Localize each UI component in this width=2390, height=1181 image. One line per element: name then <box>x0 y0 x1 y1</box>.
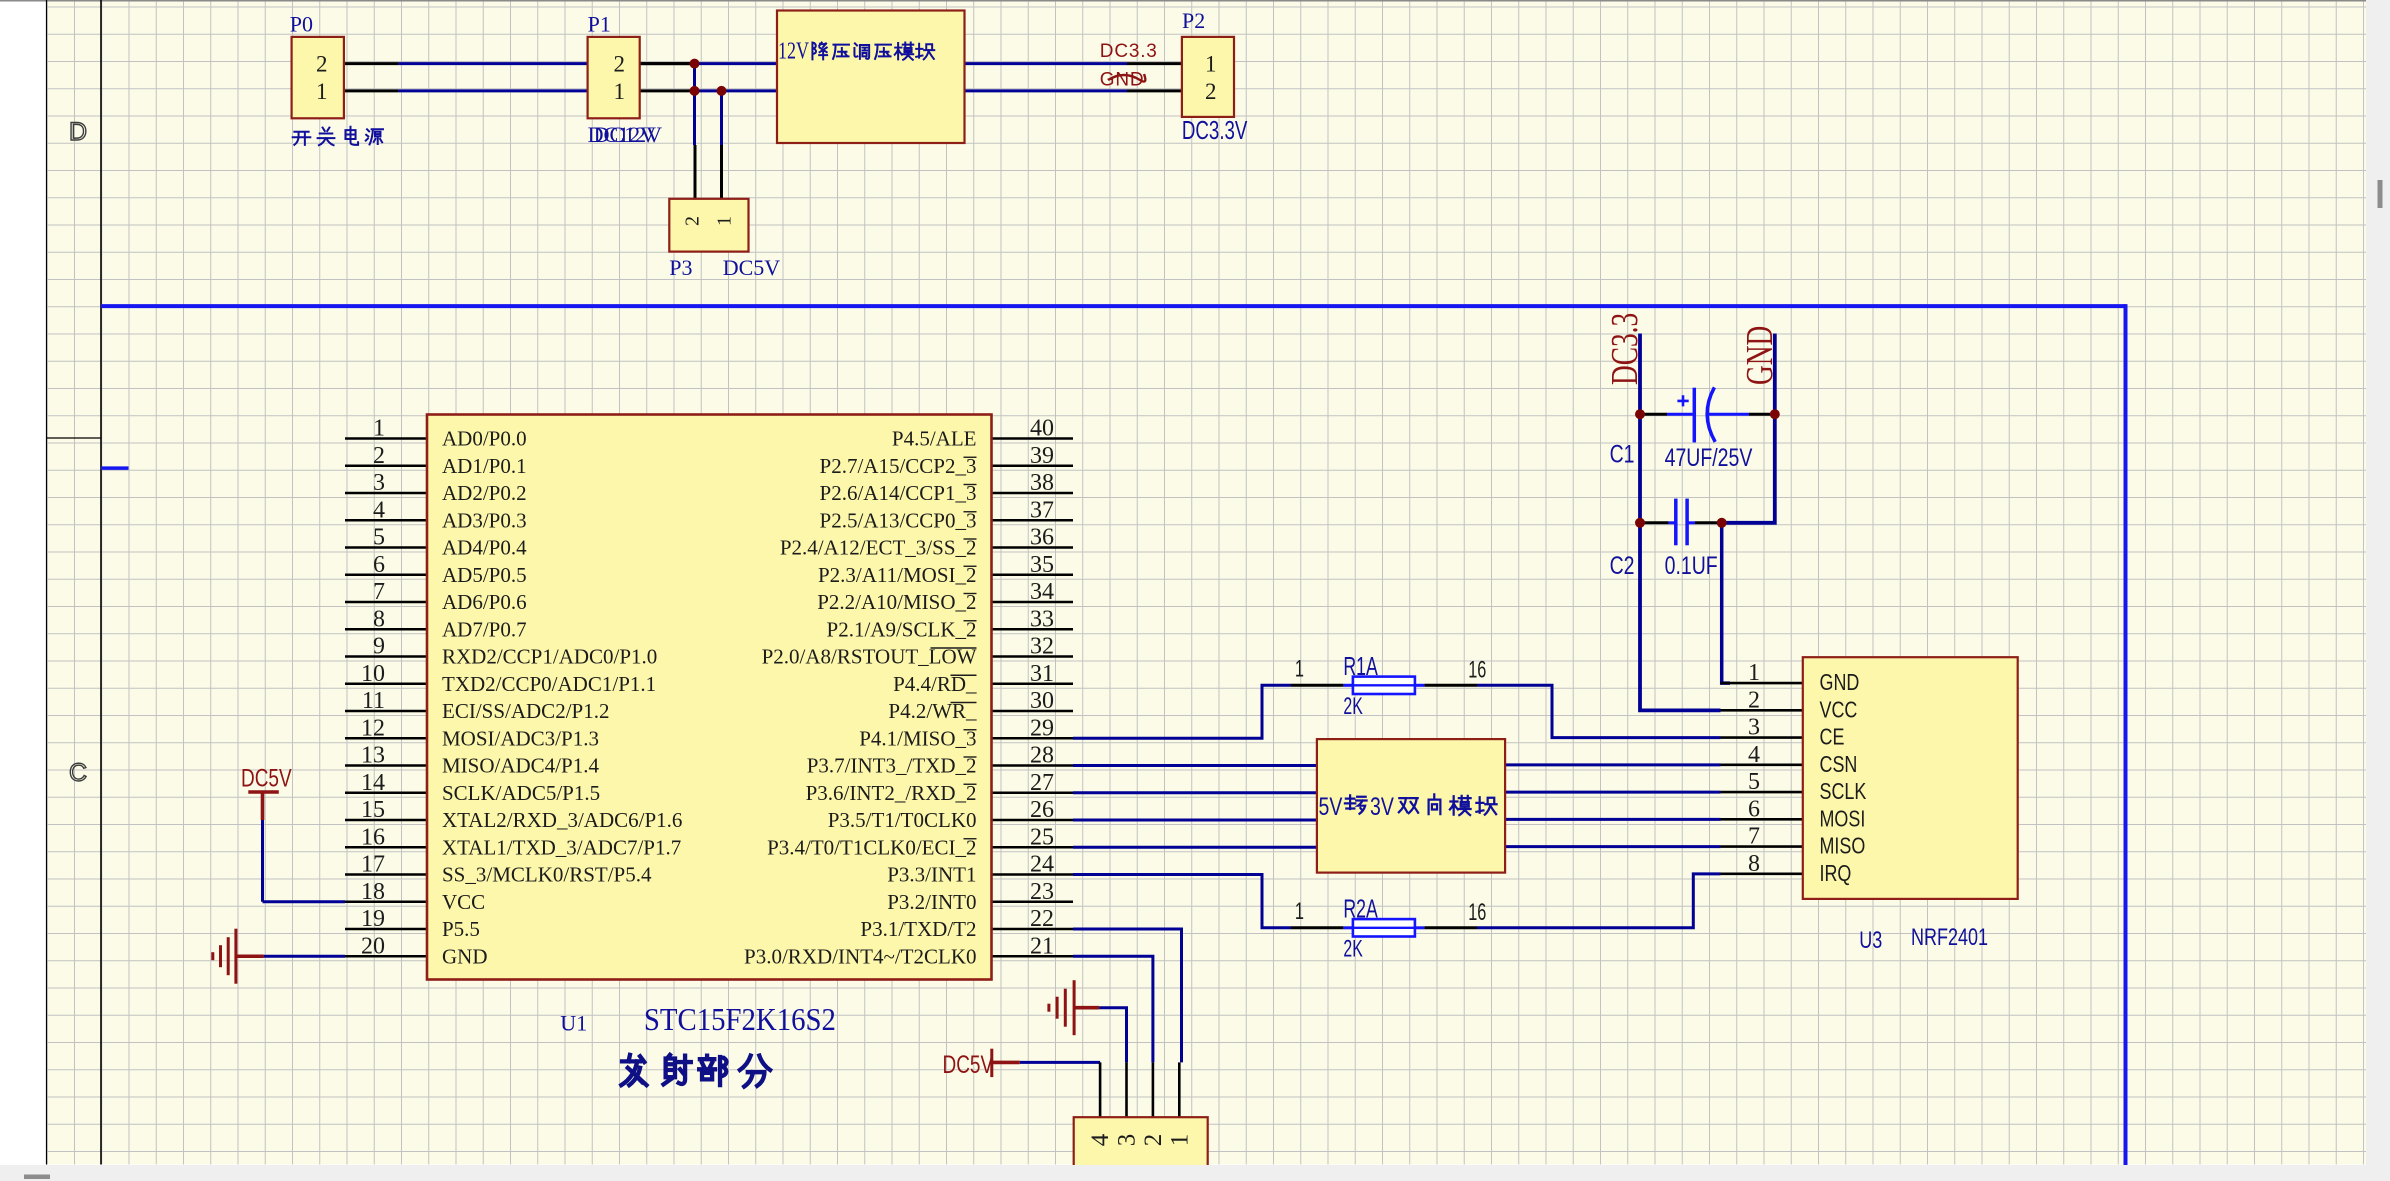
pin U1.29 stub <box>992 737 1074 740</box>
power DC5V symbol bottom <box>992 1049 1020 1077</box>
wire C2 node down to NRF2401 GND pin <box>1722 523 1730 683</box>
svg-text:DC3.3: DC3.3 <box>1604 313 1646 385</box>
pin U3.4 stub <box>1721 764 1803 767</box>
svg-text:TXD2/CCP0/ADC1/P1.1: TXD2/CCP0/ADC1/P1.1 <box>442 672 656 696</box>
pin R1A.1 lead <box>1291 684 1343 687</box>
svg-text:40: 40 <box>1030 416 1054 442</box>
svg-text:13: 13 <box>361 743 385 769</box>
12V buck module body <box>777 11 965 144</box>
pin U1.37 stub <box>992 519 1074 522</box>
svg-text:STC15F2K16S2: STC15F2K16S2 <box>644 1002 836 1038</box>
pin U1.13 stub <box>345 764 427 767</box>
svg-text:U1: U1 <box>560 1011 587 1036</box>
svg-text:MOSI/ADC3/P1.3: MOSI/ADC3/P1.3 <box>442 726 599 750</box>
svg-text:9: 9 <box>373 634 385 660</box>
svg-text:P3.1/TXD/T2: P3.1/TXD/T2 <box>860 917 976 941</box>
svg-text:SCLK: SCLK <box>1820 779 1867 805</box>
wire P0.1 to P1.1 <box>398 89 587 92</box>
svg-text:ECI/SS/ADC2/P1.2: ECI/SS/ADC2/P1.2 <box>442 699 609 723</box>
wire DC5V to U1 VCC vertical <box>261 819 264 902</box>
svg-text:3V: 3V <box>1370 793 1394 821</box>
svg-text:D: D <box>69 118 87 146</box>
pin bottom header 1 stub <box>1178 1062 1181 1117</box>
svg-text:23: 23 <box>1030 879 1054 905</box>
svg-text:15: 15 <box>361 797 385 823</box>
svg-text:VCC: VCC <box>442 890 485 914</box>
svg-text:CE: CE <box>1820 725 1845 751</box>
svg-text:AD1/P0.1: AD1/P0.1 <box>442 454 527 478</box>
svg-text:47UF/25V: 47UF/25V <box>1665 444 1753 472</box>
IC U3 NRF2401 body <box>1803 657 2018 899</box>
svg-text:26: 26 <box>1030 797 1054 823</box>
wire 12V module out to P2.2 (GND) <box>965 89 1128 92</box>
capacitor C2 0.1UF <box>1669 499 1695 546</box>
ground symbol bottom <box>1049 980 1099 1035</box>
pin U1.26 stub <box>992 819 1074 822</box>
svg-text:2: 2 <box>373 443 385 469</box>
connector P3 body <box>669 199 748 252</box>
pin bottom header 3 stub <box>1125 1062 1128 1117</box>
svg-text:MISO/ADC4/P1.4: MISO/ADC4/P1.4 <box>442 754 599 778</box>
svg-text:34: 34 <box>1030 579 1054 605</box>
svg-text:P4.1/MISO_3: P4.1/MISO_3 <box>859 726 976 750</box>
svg-text:CSN: CSN <box>1820 752 1858 778</box>
svg-text:28: 28 <box>1030 743 1054 769</box>
svg-text:2: 2 <box>682 216 704 226</box>
resistor R2A body <box>1343 919 1424 936</box>
capacitor C1 polarized 47UF/25V <box>1667 387 1749 442</box>
zone row divider <box>47 437 102 439</box>
pin U3.1 stub <box>1721 682 1803 685</box>
svg-text:P3.6/INT2_/RXD_2: P3.6/INT2_/RXD_2 <box>806 781 977 805</box>
svg-text:8: 8 <box>1748 851 1760 877</box>
svg-text:SCLK/ADC5/P1.5: SCLK/ADC5/P1.5 <box>442 781 600 805</box>
lead C1 left <box>1640 413 1667 416</box>
svg-text:1: 1 <box>714 216 736 226</box>
pin U1.21 stub <box>992 955 1074 958</box>
svg-text:22: 22 <box>1030 906 1054 932</box>
wire U1 pin28 to level module <box>1073 764 1317 767</box>
svg-text:SS_3/MCLK0/RST/P5.4: SS_3/MCLK0/RST/P5.4 <box>442 863 652 887</box>
svg-text:R1A: R1A <box>1343 652 1378 681</box>
svg-text:35: 35 <box>1030 552 1054 578</box>
svg-text:DC5V: DC5V <box>943 1050 994 1078</box>
svg-text:7: 7 <box>1748 824 1760 850</box>
svg-text:1: 1 <box>1748 660 1760 686</box>
svg-text:XTAL2/RXD_3/ADC6/P1.6: XTAL2/RXD_3/ADC6/P1.6 <box>442 808 682 832</box>
svg-text:P0: P0 <box>290 12 313 37</box>
bus wire stub left <box>101 466 129 470</box>
svg-text:31: 31 <box>1030 661 1054 687</box>
svg-text:U3: U3 <box>1859 928 1882 954</box>
svg-text:2: 2 <box>1140 1134 1167 1147</box>
bottom header connector body <box>1074 1117 1208 1169</box>
pin U1.32 stub <box>992 655 1074 658</box>
svg-text:P2.1/A9/SCLK_2: P2.1/A9/SCLK_2 <box>827 617 977 641</box>
svg-text:AD7/P0.7: AD7/P0.7 <box>442 617 527 641</box>
pin U3.8 stub <box>1721 873 1803 876</box>
wire junction down to P3 pin2 <box>693 62 696 145</box>
pin U1.20 stub <box>345 955 427 958</box>
pin U1.4 stub <box>345 519 427 522</box>
svg-text:24: 24 <box>1030 852 1054 878</box>
pin U1.12 stub <box>345 737 427 740</box>
wire junction down to P3 pin1 <box>720 90 723 146</box>
svg-text:18: 18 <box>361 879 385 905</box>
svg-text:39: 39 <box>1030 443 1054 469</box>
svg-text:25: 25 <box>1030 824 1054 850</box>
wire U1 pin25 to level module <box>1073 846 1317 849</box>
junction node (694.5,63.6) <box>690 59 700 69</box>
junction node (1640,414.2) <box>1635 409 1645 419</box>
svg-text:P3.3/INT1: P3.3/INT1 <box>887 863 976 887</box>
power DC5V symbol left <box>248 792 278 820</box>
svg-text:4: 4 <box>1748 742 1760 768</box>
window top border <box>0 0 2390 2</box>
svg-text:GND: GND <box>1820 670 1860 696</box>
svg-text:30: 30 <box>1030 688 1054 714</box>
svg-text:P3.5/T1/T0CLK0: P3.5/T1/T0CLK0 <box>828 808 977 832</box>
svg-text:8: 8 <box>373 606 385 632</box>
svg-text:AD4/P0.4: AD4/P0.4 <box>442 536 527 560</box>
svg-text:AD0/P0.0: AD0/P0.0 <box>442 427 527 451</box>
ground symbol left <box>213 929 264 984</box>
pin U1.17 stub <box>345 873 427 876</box>
wire R1A to NRF2401 CE <box>1477 685 1721 737</box>
pin U1.25 stub <box>992 846 1074 849</box>
wire DC5V to U1 pin18 VCC <box>263 900 346 903</box>
pin U1.27 stub <box>992 791 1074 794</box>
wire R2A to NRF2401 IRQ <box>1477 874 1721 928</box>
svg-text:C1: C1 <box>1610 440 1635 468</box>
svg-text:0.1UF: 0.1UF <box>1665 552 1718 580</box>
right scrollbar thumb <box>2378 180 2383 208</box>
svg-text:MOSI: MOSI <box>1820 806 1866 832</box>
5V-3V level module body <box>1317 739 1505 873</box>
pin P0.1 stub <box>344 89 399 92</box>
svg-text:1: 1 <box>1166 1134 1193 1147</box>
pin P1.1 stub <box>640 89 695 92</box>
svg-text:19: 19 <box>361 906 385 932</box>
junction node (1774.8,414.2) <box>1770 409 1780 419</box>
svg-text:4: 4 <box>373 497 385 523</box>
svg-text:2K: 2K <box>1343 936 1363 962</box>
svg-text:RXD2/CCP1/ADC0/P1.0: RXD2/CCP1/ADC0/P1.0 <box>442 645 657 669</box>
svg-text:2K: 2K <box>1343 694 1363 720</box>
pin P0.2 stub <box>344 62 399 65</box>
svg-text:2: 2 <box>614 52 626 77</box>
wire P1 junction to 12V module in+ <box>695 62 778 65</box>
sheet zone column divider <box>100 0 102 1165</box>
svg-text:5V: 5V <box>1319 793 1343 821</box>
junction node (694.5,90.9) <box>690 86 700 96</box>
connector P2 body <box>1182 37 1234 117</box>
svg-text:38: 38 <box>1030 470 1054 496</box>
pin R2A.1 lead <box>1291 926 1343 929</box>
label 开关电源 <box>293 132 311 145</box>
pin U1.40 stub <box>992 437 1074 440</box>
pin bottom header 4 stub <box>1099 1062 1102 1117</box>
pin U1.24 stub <box>992 873 1074 876</box>
pin U1.33 stub <box>992 628 1074 631</box>
svg-text:1: 1 <box>316 79 328 104</box>
svg-text:DC5V: DC5V <box>241 764 292 792</box>
wire DC3.3 rail down to NRF2401 VCC <box>1640 334 1721 711</box>
svg-text:P3.4/T0/T1CLK0/ECI_2: P3.4/T0/T1CLK0/ECI_2 <box>767 835 976 859</box>
svg-text:14: 14 <box>361 770 385 796</box>
pin U3.6 stub <box>1721 818 1803 821</box>
bottom scrollbar thumb <box>24 1175 50 1180</box>
svg-text:29: 29 <box>1030 715 1054 741</box>
pin P3.2 stub <box>694 145 697 199</box>
svg-text:AD3/P0.3: AD3/P0.3 <box>442 508 527 532</box>
pin U1.38 stub <box>992 492 1074 495</box>
wire level module to NRF2401 MISO <box>1505 845 1720 848</box>
svg-text:1: 1 <box>1205 52 1217 77</box>
pin U1.3 stub <box>345 492 427 495</box>
wire P1 junction to 12V module in- <box>695 89 778 92</box>
svg-text:4: 4 <box>1087 1133 1114 1146</box>
svg-text:P2.5/A13/CCP0_3: P2.5/A13/CCP0_3 <box>820 508 977 532</box>
svg-text:P1: P1 <box>588 12 611 37</box>
svg-text:P2: P2 <box>1182 8 1205 33</box>
svg-text:DC3.3: DC3.3 <box>1100 41 1158 62</box>
wire U1 pin24 to R2A <box>1073 875 1291 928</box>
wire ground to U1 pin20 GND <box>264 955 345 958</box>
pin U1.16 stub <box>345 846 427 849</box>
pin P2.1 stub <box>1127 62 1182 65</box>
pin U1.2 stub <box>345 464 427 467</box>
wire U1 pin29 to R1A <box>1073 685 1291 738</box>
pin U1.1 stub <box>345 437 427 440</box>
svg-text:GND: GND <box>442 944 488 968</box>
pin U1.15 stub <box>345 819 427 822</box>
wire U1 pin21 to bottom header pin2 <box>1073 956 1153 1062</box>
svg-text:6: 6 <box>1748 796 1760 822</box>
svg-text:12: 12 <box>361 715 385 741</box>
pin U1.30 stub <box>992 710 1074 713</box>
svg-text:P3.0/RXD/INT4~/T2CLK0: P3.0/RXD/INT4~/T2CLK0 <box>744 944 976 968</box>
pin U1.11 stub <box>345 710 427 713</box>
svg-text:AD6/P0.6: AD6/P0.6 <box>442 590 527 614</box>
wire ground to bottom header pin3 <box>1099 1008 1126 1063</box>
wire U1 pin26 to level module <box>1073 819 1317 822</box>
wire 12V module out to P2.1 (DC3.3) <box>965 62 1128 65</box>
svg-text:2: 2 <box>1205 79 1217 104</box>
pin U1.19 stub <box>345 928 427 931</box>
pin U1.22 stub <box>992 928 1074 931</box>
svg-text:P2.7/A15/CCP2_3: P2.7/A15/CCP2_3 <box>820 454 977 478</box>
svg-text:6: 6 <box>373 552 385 578</box>
wire U1 pin27 to level module <box>1073 791 1317 794</box>
wire level module to NRF2401 SCLK <box>1505 791 1720 794</box>
pin U1.18 stub <box>345 900 427 903</box>
svg-text:P5.5: P5.5 <box>442 917 480 941</box>
pin U1.7 stub <box>345 601 427 604</box>
pin U3.7 stub <box>1721 845 1803 848</box>
pin P1.2 stub <box>640 62 695 65</box>
wire level module to NRF2401 MOSI <box>1505 818 1720 821</box>
pin U1.9 stub <box>345 655 427 658</box>
svg-text:P4.5/ALE: P4.5/ALE <box>892 427 977 451</box>
svg-text:DC3.3V: DC3.3V <box>1182 115 1248 145</box>
svg-text:DC12V: DC12V <box>594 122 663 147</box>
svg-text:P3.2/INT0: P3.2/INT0 <box>887 890 976 914</box>
svg-text:33: 33 <box>1030 606 1054 632</box>
svg-text:C: C <box>69 759 87 787</box>
resistor R1A body <box>1343 677 1424 694</box>
svg-text:10: 10 <box>361 661 385 687</box>
svg-text:3: 3 <box>1114 1134 1141 1147</box>
pin U1.36 stub <box>992 546 1074 549</box>
pin P3.1 stub <box>720 145 723 199</box>
pin U1.39 stub <box>992 464 1074 467</box>
wire U1 pin22 to bottom header pin1 <box>1073 929 1182 1062</box>
svg-text:5: 5 <box>373 525 385 551</box>
lead C2 left <box>1640 521 1669 524</box>
pin U1.31 stub <box>992 682 1074 685</box>
bus wire horizontal <box>101 304 2126 308</box>
pin U3.5 stub <box>1721 791 1803 794</box>
pin U1.10 stub <box>345 682 427 685</box>
svg-text:2: 2 <box>316 52 328 77</box>
pin R1A.2 lead <box>1424 684 1477 687</box>
right scrollbar track <box>2366 0 2390 1181</box>
wire GND rail down to C2 row <box>1722 334 1775 523</box>
junction node (1640,522.8) <box>1635 518 1645 528</box>
svg-text:3: 3 <box>1748 715 1760 741</box>
pin U1.34 stub <box>992 601 1074 604</box>
sheet border left edge <box>46 0 48 1165</box>
svg-text:R2A: R2A <box>1343 894 1378 923</box>
svg-text:16: 16 <box>1468 899 1486 926</box>
svg-text:XTAL1/TXD_3/ADC7/P1.7: XTAL1/TXD_3/ADC7/P1.7 <box>442 835 681 859</box>
svg-text:GND: GND <box>1739 326 1781 385</box>
svg-text:P2.2/A10/MISO_2: P2.2/A10/MISO_2 <box>817 590 976 614</box>
junction node (1721.7,522.8) <box>1717 518 1727 528</box>
svg-text:2: 2 <box>1748 687 1760 713</box>
lead C1 right <box>1749 413 1775 416</box>
svg-text:NRF2401: NRF2401 <box>1911 925 1988 951</box>
pin bottom header 2 stub <box>1152 1062 1155 1117</box>
pin U1.28 stub <box>992 764 1074 767</box>
svg-text:5: 5 <box>1748 769 1760 795</box>
svg-text:IRQ: IRQ <box>1820 861 1852 887</box>
wire DC5V to bottom header pin4 <box>1020 1061 1100 1064</box>
wire level module to NRF2401 CSN <box>1505 763 1720 766</box>
pin P2.2 stub <box>1127 89 1182 92</box>
svg-text:1: 1 <box>1295 898 1304 925</box>
junction node (721.5,90.9) <box>717 86 727 96</box>
pin U1.35 stub <box>992 573 1074 576</box>
bus wire vertical right <box>2124 304 2128 1165</box>
svg-text:17: 17 <box>361 852 385 878</box>
connector P0 body <box>292 37 344 118</box>
svg-text:P3.7/INT3_/TXD_2: P3.7/INT3_/TXD_2 <box>807 754 977 778</box>
pin R2A.2 lead <box>1424 926 1477 929</box>
pin U1.14 stub <box>345 791 427 794</box>
pin U1.23 stub <box>992 900 1074 903</box>
svg-text:1: 1 <box>1295 656 1304 683</box>
svg-text:VCC: VCC <box>1820 697 1858 723</box>
svg-text:1: 1 <box>614 79 626 104</box>
svg-text:MISO: MISO <box>1820 834 1866 860</box>
svg-text:3: 3 <box>373 470 385 496</box>
svg-text:P2.3/A11/MOSI_2: P2.3/A11/MOSI_2 <box>818 563 977 587</box>
svg-text:AD5/P0.5: AD5/P0.5 <box>442 563 527 587</box>
svg-text:P2.4/A12/ECT_3/SS_2: P2.4/A12/ECT_3/SS_2 <box>780 536 977 560</box>
wire P0.2 to P1.2 <box>398 62 587 65</box>
svg-text:32: 32 <box>1030 634 1054 660</box>
svg-text:C2: C2 <box>1610 552 1635 580</box>
label 发射部分 <box>621 1055 646 1085</box>
svg-text:1: 1 <box>373 416 385 442</box>
svg-text:7: 7 <box>373 579 385 605</box>
svg-text:16: 16 <box>361 824 385 850</box>
svg-text:21: 21 <box>1030 933 1054 959</box>
bottom scrollbar track <box>0 1165 2390 1181</box>
svg-text:P3: P3 <box>669 255 692 280</box>
svg-text:27: 27 <box>1030 770 1054 796</box>
lead C2 right <box>1695 521 1722 524</box>
svg-text:12V: 12V <box>778 37 810 64</box>
pin U1.8 stub <box>345 628 427 631</box>
svg-text:DC5V: DC5V <box>723 255 781 280</box>
pin U3.2 stub <box>1721 709 1803 712</box>
svg-text:AD2/P0.2: AD2/P0.2 <box>442 481 527 505</box>
IC U1 body <box>427 415 992 980</box>
pin U1.5 stub <box>345 546 427 549</box>
svg-text:20: 20 <box>361 933 385 959</box>
connector P1 body <box>588 37 640 118</box>
pin U3.3 stub <box>1721 736 1803 739</box>
svg-text:37: 37 <box>1030 497 1054 523</box>
svg-text:P2.6/A14/CCP1_3: P2.6/A14/CCP1_3 <box>820 481 977 505</box>
svg-text:16: 16 <box>1468 656 1486 683</box>
pin U1.6 stub <box>345 573 427 576</box>
svg-text:11: 11 <box>362 688 385 714</box>
svg-text:36: 36 <box>1030 525 1054 551</box>
